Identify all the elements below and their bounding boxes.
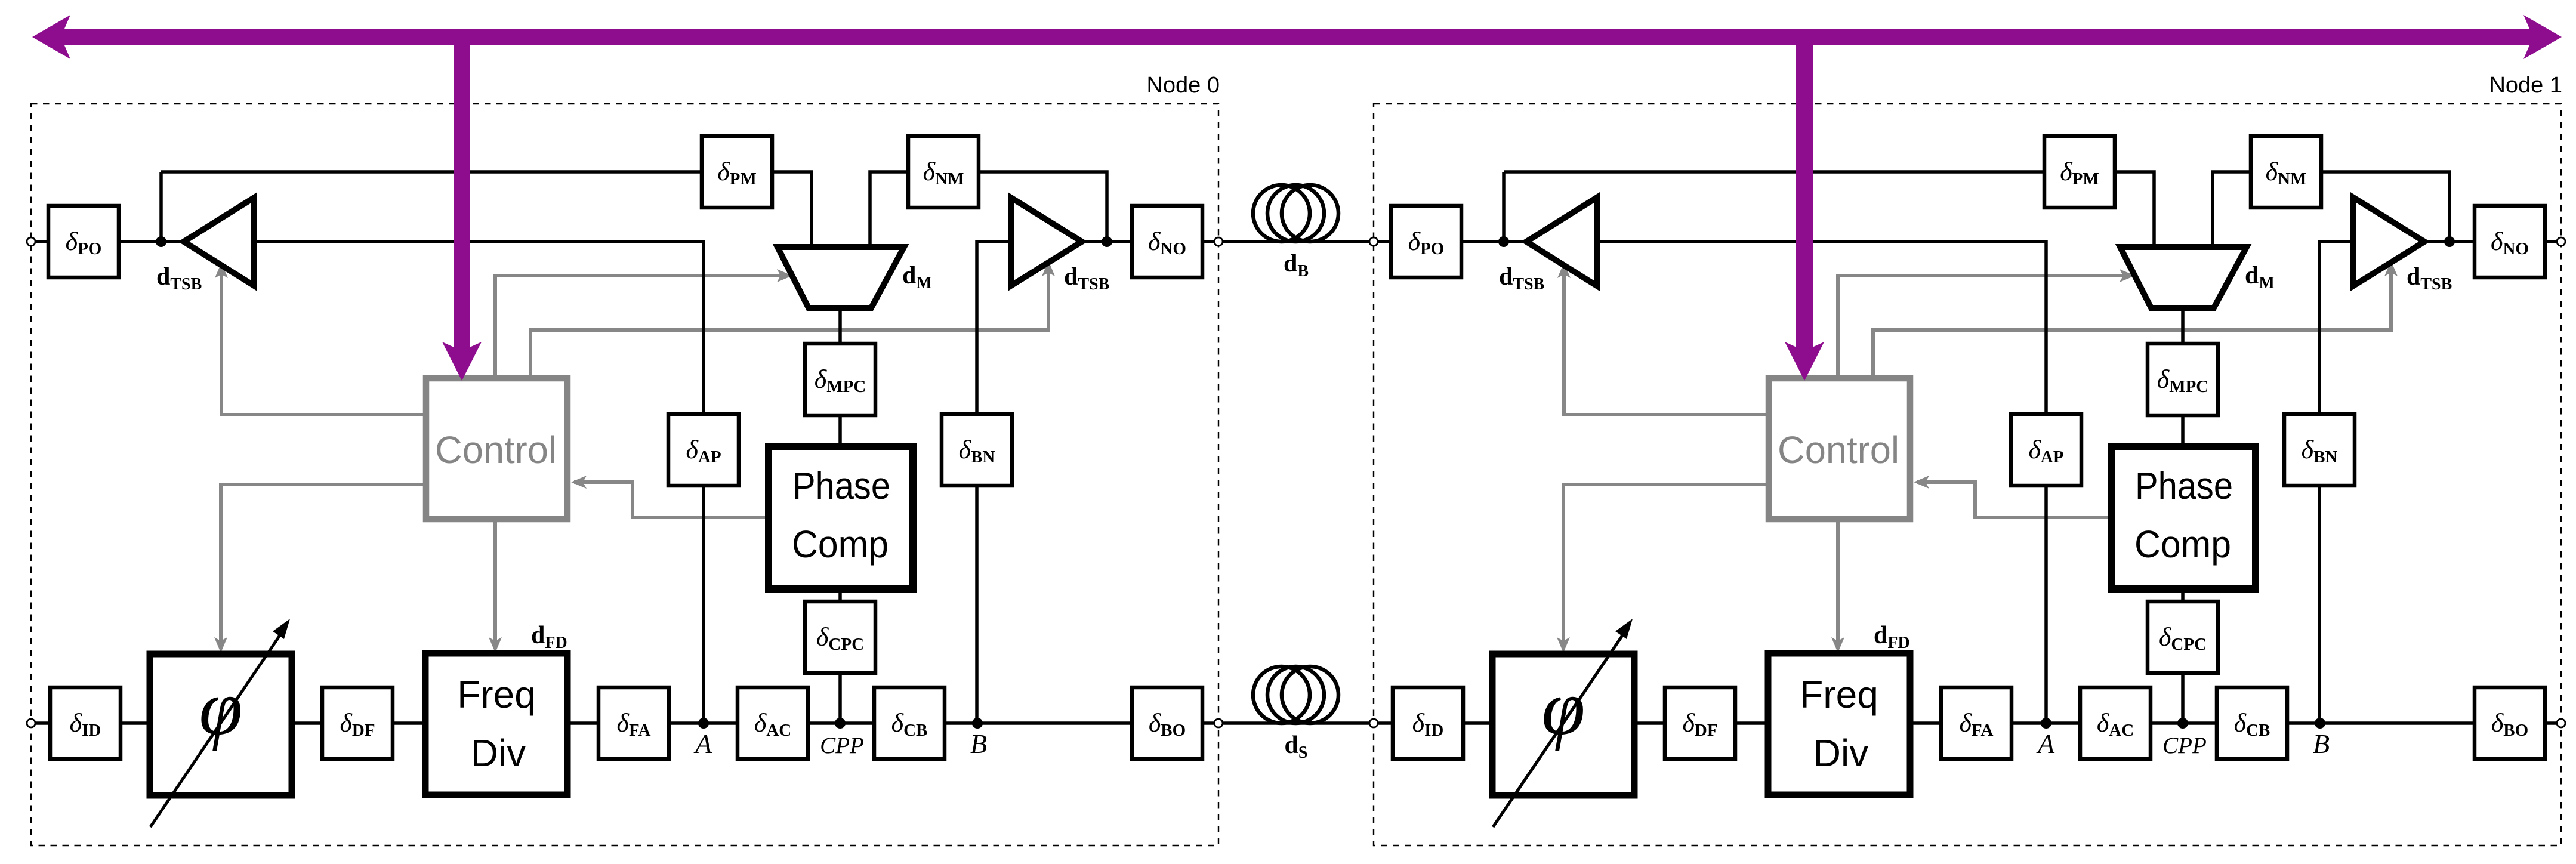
gray arrow into output buffer (Node 0) [1042, 261, 1055, 276]
wire: delta_PM to mux drop (Node 1) [2115, 172, 2154, 248]
wire: delta_AC to delta_CB (Node 0) [808, 721, 874, 725]
svg-text:φ: φ [1541, 664, 1585, 751]
wire: buffer base to delta_AP corner (Node 0) [253, 242, 704, 723]
wire: junction dTSB up (Node 1) [1502, 172, 1506, 242]
delay block delta_BN (Node 1) [2284, 414, 2355, 486]
svg-text:φ: φ [199, 664, 242, 751]
delay block delta_CB (Node 1) [2217, 687, 2287, 759]
gray wire: phase comp to control (Node 0) [574, 482, 770, 517]
output terminal bottom (Node 1) [2557, 719, 2565, 727]
svg-text:Node 1: Node 1 [2489, 73, 2562, 98]
svg-text:dTSB: dTSB [156, 263, 202, 294]
phase shifter diagonal arrow (Node 0) [150, 630, 283, 827]
delay block delta_BN (Node 0) [942, 414, 1012, 486]
delay block delta_FA (Node 0) [599, 687, 669, 759]
wire: delta_NO to node edge (Node 1) [2545, 240, 2557, 243]
purple timing bus horizontal bar [58, 29, 2533, 45]
input terminal bottom (Node 1) [1369, 719, 1378, 727]
wire: mux to delta_NM riser (Node 1) [2213, 172, 2251, 248]
gray wire: phase comp to control (Node 1) [1917, 482, 2112, 517]
wire: delta_ID to phase shifter (Node 0) [121, 721, 151, 725]
svg-text:Phase: Phase [792, 464, 890, 507]
svg-text:Control: Control [435, 428, 557, 471]
gray arrow into control (Node 0) [571, 476, 587, 489]
gray wire: control to input buffer (Node 0) [221, 270, 426, 415]
fiber spool dB coil 2 [1267, 185, 1324, 242]
fiber spool dB coil 3 [1282, 185, 1338, 242]
input terminal top (Node 1) [1369, 237, 1378, 246]
gray arrow into input buffer (Node 0) [215, 263, 228, 278]
svg-text:Control: Control [1778, 428, 1899, 471]
wire: delta_BO to node edge (Node 0) [1202, 721, 1214, 725]
svg-text:dFD: dFD [531, 622, 567, 652]
phase comp block (Node 0) [769, 447, 913, 589]
wire: delta_NM to output junction (Node 1) [2321, 172, 2449, 242]
svg-text:A: A [2036, 729, 2055, 759]
wire: phase shifter to delta_DF (Node 0) [291, 721, 322, 725]
wire: delta_NM to output junction (Node 0) [979, 172, 1107, 242]
input terminal bottom (Node 0) [27, 719, 35, 727]
wire: output buffer to delta_NO (Node 0) [1081, 240, 1132, 243]
dashed border of Node 0 [31, 104, 1218, 846]
delay block delta_AP (Node 1) [2011, 414, 2081, 486]
svg-text:Div: Div [1813, 732, 1868, 774]
wire: delta_PO to buffer tip (Node 1) [1461, 240, 1528, 243]
junction node B dot (Node 0) [972, 718, 983, 729]
wire: buffer base to delta_AP corner (Node 1) [1596, 242, 2046, 723]
fiber spool dB coil 1 [1253, 185, 1310, 242]
purple timing drop arrowhead (Node 0) [442, 342, 482, 381]
delay block delta_MPC (Node 0) [805, 344, 875, 415]
svg-text:CPP: CPP [2162, 733, 2207, 758]
input buffer amp dTSB (Node 1) [1526, 198, 1597, 286]
delay block delta_DF (Node 0) [322, 687, 393, 759]
junction node CPP dot (Node 0) [835, 718, 846, 729]
svg-text:dM: dM [2245, 262, 2275, 292]
wire: delta_CB to delta_BO (Node 0) [945, 721, 1132, 725]
wire: phase shifter to delta_DF (Node 1) [1633, 721, 1665, 725]
purple timing drop shaft (Node 0) [454, 29, 470, 358]
delay block delta_AC (Node 1) [2080, 687, 2151, 759]
output buffer amp dTSB (Node 1) [2353, 198, 2424, 286]
gray wire: control to output buffer (Node 1) [1873, 269, 2391, 378]
delay block delta_CB (Node 0) [874, 687, 945, 759]
wire: to delta_PM (Node 1) [1504, 170, 2044, 174]
dashed border of Node 1 [1374, 104, 2561, 846]
junction dot at dTSB output (Node 1) [1498, 236, 1509, 247]
delay block delta_AP (Node 0) [668, 414, 739, 486]
delay block delta_NM (Node 0) [908, 136, 979, 208]
freq div block (Node 0) [425, 653, 567, 795]
wire: freq div to delta_FA (Node 1) [1909, 721, 1941, 725]
wire: mux to delta_NM riser (Node 0) [870, 172, 908, 248]
delay block delta_CPC (Node 1) [2148, 601, 2218, 673]
mux dM (Node 1) [2120, 247, 2247, 308]
svg-text:dTSB: dTSB [1064, 263, 1109, 294]
junction dot at output buffer (Node 1) [2444, 236, 2455, 247]
gray wire: control to phase shifter (Node 1) [1563, 485, 1769, 647]
wire: input terminal to delta_PO (Node 0) [35, 240, 48, 243]
svg-text:dTSB: dTSB [1499, 263, 1544, 294]
delay block delta_ID (Node 0) [50, 687, 121, 759]
wire: delta_AC to delta_CB (Node 1) [2151, 721, 2217, 725]
wire: input terminal to delta_PO (Node 1) [1378, 240, 1391, 243]
phase shifter diagonal arrow (Node 1) [1493, 630, 1626, 827]
svg-text:dTSB: dTSB [2407, 263, 2452, 294]
wire: delta_BN vertical (Node 0) [977, 242, 1011, 723]
junction node B dot (Node 1) [2315, 718, 2325, 729]
output terminal bottom (Node 0) [1214, 719, 1223, 727]
output buffer amp dTSB (Node 0) [1011, 198, 1082, 286]
gray wire: control to freq div (Node 0) [493, 519, 497, 647]
gray wire: control to freq div (Node 1) [1836, 519, 1840, 647]
wire: delta_ID to phase shifter (Node 1) [1463, 721, 1494, 725]
purple timing drop arrowhead (Node 1) [1785, 342, 1824, 381]
svg-text:Node 0: Node 0 [1146, 73, 1220, 98]
junction dot at output buffer (Node 0) [1102, 236, 1112, 247]
delay block delta_PM (Node 0) [702, 136, 772, 208]
output terminal top (Node 1) [2557, 237, 2565, 246]
junction dot at dTSB output (Node 0) [156, 236, 166, 247]
wire: delta_BN vertical (Node 1) [2319, 242, 2353, 723]
gray wire: control to input buffer (Node 1) [1564, 270, 1769, 415]
wire: to delta_PM (Node 0) [161, 170, 702, 174]
phase shifter block (Node 0) [150, 654, 292, 795]
delay block delta_PO (Node 1) [1391, 206, 1461, 277]
wire: sync fiber link bottom [1223, 721, 1369, 725]
svg-text:dM: dM [902, 262, 932, 292]
svg-text:A: A [693, 729, 712, 759]
mux dM (Node 0) [778, 247, 904, 308]
gray arrow into freq div (Node 0) [489, 637, 502, 653]
delay block delta_NO (Node 0) [1132, 206, 1202, 277]
wire: delta_PM to mux drop (Node 0) [772, 172, 812, 248]
wire: junction dTSB up (Node 0) [159, 172, 163, 242]
wire: delta_PO to buffer tip (Node 0) [119, 240, 185, 243]
delay block delta_MPC (Node 1) [2148, 344, 2218, 415]
fiber spool dS coil 3 [1282, 666, 1338, 723]
wire: delta_DF to freq div (Node 0) [393, 721, 427, 725]
svg-text:Freq: Freq [1800, 673, 1878, 716]
svg-text:Freq: Freq [457, 673, 536, 716]
input terminal top (Node 0) [27, 237, 35, 246]
wire: phase comp to CPP (Node 1) [2181, 588, 2185, 723]
delay block delta_DF (Node 1) [1665, 687, 1735, 759]
output terminal top (Node 0) [1214, 237, 1223, 246]
svg-text:Comp: Comp [2134, 523, 2231, 566]
gray arrow into mux (Node 1) [2120, 269, 2135, 282]
gray wire: control to output buffer (Node 0) [530, 269, 1048, 378]
junction node A dot (Node 1) [2041, 718, 2051, 729]
junction node CPP dot (Node 1) [2177, 718, 2188, 729]
svg-text:Div: Div [471, 732, 526, 774]
wire: delta_FA to delta_AC (Node 0) [669, 721, 738, 725]
delay block delta_BO (Node 0) [1132, 687, 1202, 759]
purple bus right arrowhead [2523, 15, 2562, 59]
svg-text:dS: dS [1285, 732, 1308, 762]
wire: output buffer to delta_NO (Node 1) [2423, 240, 2475, 243]
wire: input terminal to delta_ID (Node 1) [1378, 721, 1393, 725]
fiber spool dS coil 2 [1267, 666, 1324, 723]
delay block delta_NM (Node 1) [2251, 136, 2321, 208]
svg-text:Phase: Phase [2135, 464, 2233, 507]
delay block delta_CPC (Node 0) [805, 601, 875, 673]
wire: mux to phase comp (Node 1) [2181, 307, 2185, 448]
gray arrow into output buffer (Node 1) [2384, 261, 2398, 276]
gray arrow into phase shifter (Node 1) [1557, 637, 1570, 653]
junction node A dot (Node 0) [698, 718, 709, 729]
wire: backbone fiber link top [1223, 240, 1369, 243]
svg-text:Comp: Comp [792, 523, 889, 566]
control block (Node 1) [1769, 378, 1910, 519]
gray wire: control to phase shifter (Node 0) [221, 485, 426, 647]
control block (Node 0) [426, 378, 567, 519]
gray wire: control to mux select (Node 0) [495, 276, 782, 378]
svg-text:B: B [2313, 729, 2330, 759]
phase comp block (Node 1) [2111, 447, 2256, 589]
wire: delta_NO to node edge (Node 0) [1202, 240, 1214, 243]
gray wire: control to mux select (Node 1) [1838, 276, 2124, 378]
gray arrow into input buffer (Node 1) [1557, 263, 1571, 278]
svg-text:dFD: dFD [1874, 622, 1910, 652]
svg-text:CPP: CPP [820, 733, 864, 758]
wire: freq div to delta_FA (Node 0) [566, 721, 599, 725]
delay block delta_PM (Node 1) [2044, 136, 2115, 208]
delay block delta_BO (Node 1) [2475, 687, 2545, 759]
gray arrow into mux (Node 0) [777, 269, 792, 282]
gray arrow into control (Node 1) [1914, 476, 1929, 489]
wire: phase comp to CPP (Node 0) [838, 588, 842, 723]
delay block delta_FA (Node 1) [1941, 687, 2012, 759]
gray arrow into freq div (Node 1) [1831, 637, 1844, 653]
wire: delta_CB to delta_BO (Node 1) [2287, 721, 2475, 725]
delay block delta_NO (Node 1) [2475, 206, 2545, 277]
wire: mux to phase comp (Node 0) [838, 307, 842, 448]
svg-text:dB: dB [1284, 250, 1309, 280]
purple bus left arrowhead [32, 15, 70, 59]
purple timing drop shaft (Node 1) [1796, 29, 1813, 358]
delay block delta_PO (Node 0) [48, 206, 119, 277]
wire: input terminal to delta_ID (Node 0) [35, 721, 50, 725]
wire: delta_BO to node edge (Node 1) [2545, 721, 2557, 725]
phase shifter block (Node 1) [1492, 654, 1634, 795]
wire: delta_FA to delta_AC (Node 1) [2012, 721, 2080, 725]
delay block delta_AC (Node 0) [738, 687, 808, 759]
delay block delta_ID (Node 1) [1393, 687, 1463, 759]
input buffer amp dTSB (Node 0) [184, 198, 254, 286]
wire: delta_DF to freq div (Node 1) [1735, 721, 1769, 725]
freq div block (Node 1) [1768, 653, 1910, 795]
fiber spool dS coil 1 [1253, 666, 1310, 723]
gray arrow into phase shifter (Node 0) [214, 637, 227, 653]
svg-text:B: B [970, 729, 987, 759]
